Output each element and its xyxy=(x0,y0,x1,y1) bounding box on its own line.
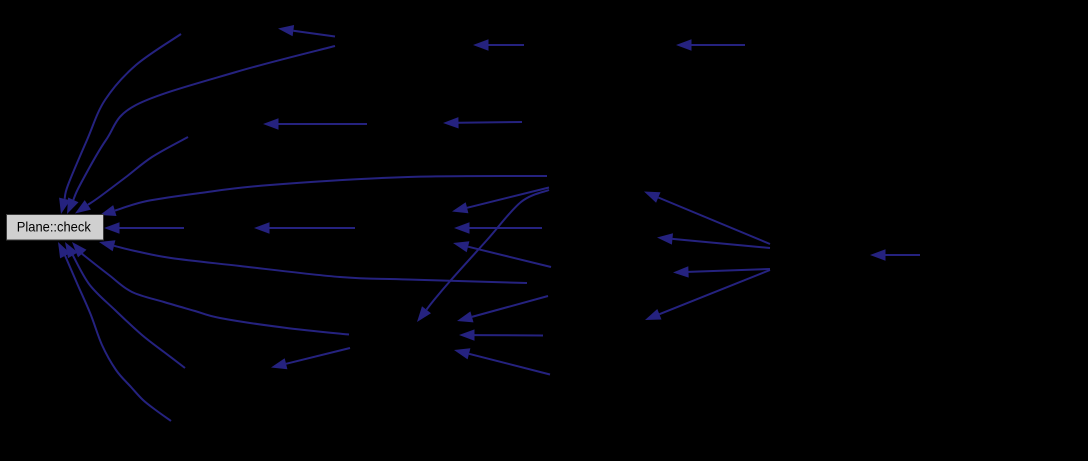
svg-text:Plane::check: Plane::check xyxy=(17,219,92,235)
